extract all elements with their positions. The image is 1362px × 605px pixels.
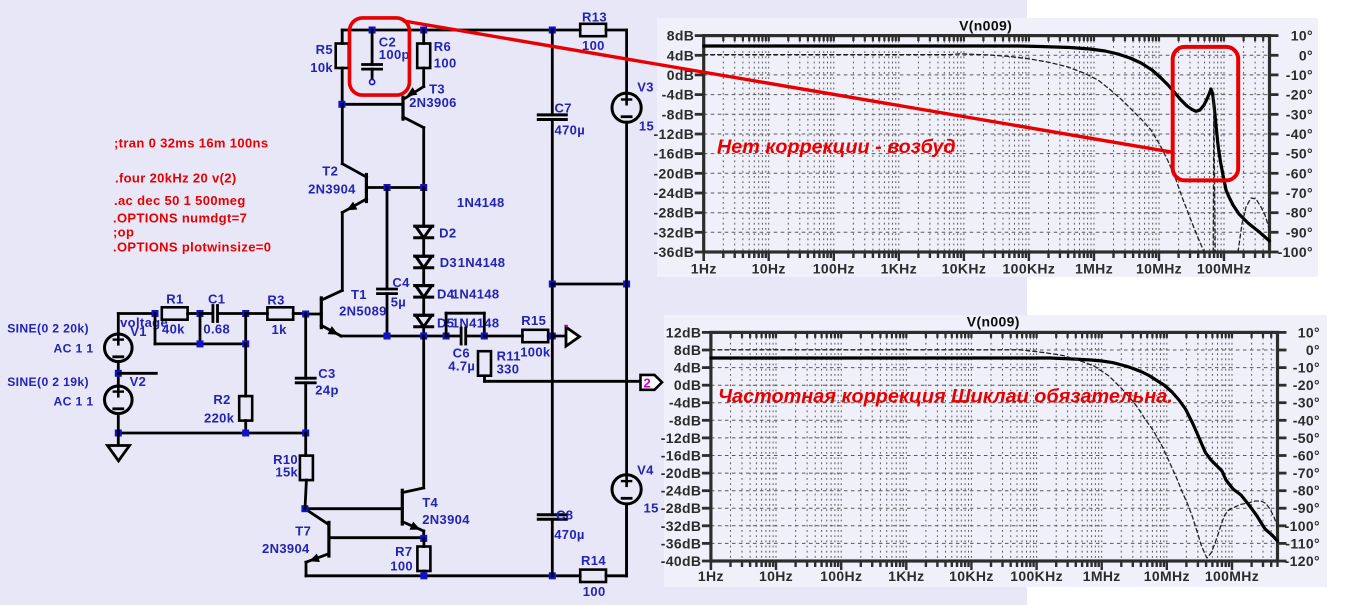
svg-text:100: 100 [583,584,606,599]
svg-text:330: 330 [497,362,520,377]
svg-text:-12dB: -12dB [661,430,702,446]
svg-text:V3: V3 [637,80,654,95]
svg-text:C7: C7 [555,101,572,116]
svg-text:T7: T7 [295,524,311,539]
svg-text:100p: 100p [379,47,410,62]
directive tran [114,135,268,150]
junction diode/T4 collector node [420,333,427,340]
junction C7 bottom / V rail link [549,281,556,288]
svg-text:0dB: 0dB [674,377,702,393]
label AC V1 [54,342,94,356]
svg-text:R14: R14 [581,553,606,568]
frequency axis labels [691,261,1251,277]
svg-text:-80°: -80° [1293,483,1320,499]
wire diode column [422,188,425,337]
grid vertical lines [731,332,1272,561]
svg-text:D2: D2 [439,226,456,241]
junction node A [152,310,159,317]
svg-text:-32dB: -32dB [654,224,695,240]
directive options numdgt [113,210,247,225]
axis tick marks [711,332,1278,570]
grid horizontal lines [704,55,1270,232]
svg-text:5µ: 5µ [391,295,406,310]
svg-text:10°: 10° [1291,28,1313,44]
svg-text:40k: 40k [162,322,185,337]
plot frame [711,332,1278,561]
svg-text:1Hz: 1Hz [691,261,717,277]
svg-text:1Hz: 1Hz [698,568,724,584]
directive plotwinsize [113,239,271,254]
junction C2 top [369,27,376,34]
svg-text:15: 15 [639,118,654,133]
svg-text:R5: R5 [316,42,333,57]
svg-text:-110°: -110° [1285,535,1320,551]
svg-text:Нет коррекции - возбуд: Нет коррекции - возбуд [717,136,956,158]
svg-text:AC 1 1: AC 1 1 [54,394,94,408]
annotation no compensation [717,136,956,158]
svg-text:100: 100 [434,56,457,71]
svg-text:-8dB: -8dB [669,412,702,428]
svg-text:470µ: 470µ [555,123,586,138]
svg-text:T4: T4 [422,495,438,510]
svg-text:100k: 100k [520,344,551,359]
junction C4 top [384,184,391,191]
resistor R7 [390,538,430,575]
svg-text:100: 100 [390,558,413,573]
svg-text:SINE(0 2 20k): SINE(0 2 20k) [7,321,89,335]
wire C7 column middle [551,284,554,336]
junction C4 bottom [384,333,391,340]
schematic window background [0,0,1027,605]
transistor T7 2N3904 [262,509,424,576]
svg-text:1k: 1k [272,322,288,337]
svg-text:SINE(0 2 19k): SINE(0 2 19k) [7,375,89,389]
wire top rail [342,29,580,32]
voltage source V3 [612,80,654,285]
svg-text:-4dB: -4dB [669,395,702,411]
transistor T1 2N5089 [306,287,387,336]
wire RC bypass [155,314,246,344]
svg-text:-16dB: -16dB [661,448,702,464]
svg-text:.ac dec 50 1 500meg: .ac dec 50 1 500meg [114,193,246,208]
resistor R15 [484,313,552,359]
svg-text:2N3906: 2N3906 [409,95,457,110]
svg-text:C1: C1 [208,292,225,307]
svg-text:1MHz: 1MHz [1083,568,1121,584]
junction C3 bottom / R10 top [302,430,309,437]
grid horizontal lines [711,350,1278,543]
transistor T3 2N3906 [342,81,457,187]
wire T4 collector [422,336,425,488]
svg-text:10MHz: 10MHz [1144,568,1190,584]
right phase axis labels [1278,324,1321,569]
svg-text:-30°: -30° [1286,106,1313,122]
svg-text:2N3904: 2N3904 [308,182,356,197]
junction R7 top / T4 emitter / T7 base [420,535,427,542]
label 1N4148 diode chain [457,195,505,210]
directive ac [114,193,246,208]
svg-text:8dB: 8dB [674,342,702,358]
svg-text:-24dB: -24dB [661,483,702,499]
svg-text:10KHz: 10KHz [949,568,994,584]
svg-text:-40°: -40° [1293,412,1320,428]
svg-text:1MHz: 1MHz [1075,261,1113,277]
resistor R1 [162,292,200,337]
directive four [115,170,237,185]
svg-text:-60°: -60° [1293,448,1320,464]
label SINE V2 [7,375,89,389]
svg-text:-100°: -100° [1285,518,1320,534]
resistor R11 [478,349,521,382]
svg-text:0°: 0° [1306,342,1320,358]
svg-text:-28dB: -28dB [661,500,702,516]
junction C7 top [549,27,556,34]
svg-text:220k: 220k [204,411,235,426]
svg-text:1N4148: 1N4148 [458,255,506,270]
ground symbol [108,446,130,461]
wire C6 bypass [446,313,484,336]
svg-text:100Hz: 100Hz [813,261,855,277]
svg-text:C3: C3 [318,366,335,381]
svg-text:-50°: -50° [1293,430,1320,446]
svg-text:100KHz: 100KHz [1003,261,1056,277]
right phase axis labels [1270,28,1314,260]
bottom Bode plot V(n009): with compensation [661,314,1320,585]
svg-text:1N4148: 1N4148 [452,315,500,330]
svg-text:4.7µ: 4.7µ [448,358,475,373]
svg-text:2: 2 [644,376,652,391]
wire bottom rail [306,574,580,577]
svg-text:-10°: -10° [1286,67,1313,83]
svg-text:15: 15 [644,500,659,515]
wire V2 node stub [118,372,156,375]
svg-text:-28dB: -28dB [654,205,695,221]
top plot magnitude curve (solid) [704,46,1270,241]
svg-text:10Hz: 10Hz [759,568,793,584]
bottom plot magnitude curve (solid) [711,358,1278,541]
svg-text:-10°: -10° [1293,360,1320,376]
wire ground rail [118,432,305,435]
wire to port 2 [485,380,645,383]
junction bypass B [197,340,204,347]
bottom plot phase curve (dashed) [711,350,1278,558]
wire emitter rail [341,335,446,338]
svg-text:8dB: 8dB [667,28,695,44]
svg-text:-50°: -50° [1286,146,1313,162]
svg-text:100MHz: 100MHz [1197,261,1251,277]
svg-text:.four 20kHz 20 v(2): .four 20kHz 20 v(2) [115,170,237,185]
svg-text:R3: R3 [267,293,284,308]
svg-text:V4: V4 [637,462,654,477]
capacitor C8 [538,336,584,576]
wire V1 top to node A [118,312,155,315]
junction node C [242,310,249,317]
red callout line [404,21,1173,152]
svg-text:470µ: 470µ [554,527,585,542]
bottom plot panel background [664,315,1327,587]
svg-text:Частотная коррекция Шиклаи обя: Частотная коррекция Шиклаи обязательна. [718,386,1173,408]
junction T1 base / C3 top [302,311,309,318]
resistor R13 [580,10,626,94]
svg-text:R1: R1 [166,292,183,307]
capacitor C6 [446,328,484,373]
diode D4 1N4148 [415,286,500,302]
svg-text:.OPTIONS plotwinsize=0: .OPTIONS plotwinsize=0 [113,239,271,254]
svg-text:4dB: 4dB [674,360,702,376]
svg-text:D3: D3 [440,255,457,270]
svg-text:-40°: -40° [1286,126,1313,142]
left dB axis labels [661,324,711,569]
svg-text:C4: C4 [392,275,410,290]
svg-text:R7: R7 [395,544,412,559]
capacitor C7 [538,30,585,284]
voltage source V4 [612,284,659,576]
svg-text:-80°: -80° [1286,205,1313,221]
svg-text:-36dB: -36dB [654,244,695,260]
svg-text:;op: ;op [113,224,134,239]
svg-text:V1: V1 [130,324,147,339]
svg-text:-16dB: -16dB [654,146,695,162]
directive op [113,224,134,239]
svg-text:;tran 0 32ms 16m 100ns: ;tran 0 32ms 16m 100ns [114,135,268,150]
svg-text:1N4148: 1N4148 [452,286,500,301]
svg-text:-70°: -70° [1286,185,1313,201]
svg-text:24p: 24p [315,382,338,397]
frequency axis labels [698,568,1259,584]
voltage source V1 [105,314,169,362]
resistor R6 [417,30,456,87]
junction R2 bottom [242,430,249,437]
svg-text:10°: 10° [1298,324,1320,340]
transistor T2 2N3904 [308,104,366,290]
wire T2 base to diode column [366,186,423,189]
svg-text:15k: 15k [275,465,298,480]
svg-text:-120°: -120° [1285,553,1320,569]
red highlight box in top plot [1173,47,1239,181]
svg-text:-32dB: -32dB [661,518,702,534]
svg-text:100Hz: 100Hz [820,568,862,584]
capacitor C2 [363,30,410,85]
svg-text:T1: T1 [351,287,367,302]
svg-text:-36dB: -36dB [661,535,702,551]
svg-text:-90°: -90° [1286,224,1313,240]
svg-text:-12dB: -12dB [654,126,695,142]
svg-text:-20dB: -20dB [654,165,695,181]
plot frame [704,36,1270,252]
svg-text:0°: 0° [1299,47,1313,63]
svg-text:-60°: -60° [1286,165,1313,181]
svg-text:1KHz: 1KHz [888,568,924,584]
transistor T4 2N3904 [305,488,470,539]
resistor R3 [246,293,306,337]
resistor R14 [580,504,626,599]
svg-text:4dB: 4dB [667,47,695,63]
svg-text:2N5089: 2N5089 [339,304,387,319]
junction R6 top [420,27,427,34]
svg-text:100MHz: 100MHz [1205,568,1259,584]
diode D2 1N4148 [415,226,457,241]
junction V1-/V2+ node [115,370,122,377]
label SINE V1 [7,321,89,335]
junction R7 bottom [420,572,427,579]
junction V2 bottom / ground [115,430,122,437]
junction C6 left [443,333,450,340]
svg-text:V(n009): V(n009) [959,18,1012,34]
svg-text:T2: T2 [322,163,338,178]
port 2 output flag [641,375,663,391]
capacitor C3 [296,314,339,433]
svg-text:10k: 10k [310,60,333,75]
svg-text:2N3904: 2N3904 [262,541,310,556]
resistor R2 [204,344,252,433]
svg-text:0.68: 0.68 [203,322,230,337]
svg-text:-24dB: -24dB [654,185,695,201]
svg-text:-30°: -30° [1293,395,1320,411]
voltage source V2 [105,362,147,414]
junction R5/T2 collector node [338,101,345,108]
svg-text:10MHz: 10MHz [1136,261,1182,277]
svg-text:1N4148: 1N4148 [457,195,505,210]
junction bypass C / R2 top [242,340,249,347]
wire link C7-V3 columns [552,283,626,286]
left dB axis labels [654,28,704,260]
output probe arrow [552,325,579,346]
svg-text:R2: R2 [213,392,230,407]
top plot panel background [657,18,1318,277]
svg-text:C8: C8 [556,508,573,523]
junction C6 right / R11 top [481,333,488,340]
junction V3/V4 column link [623,281,630,288]
svg-text:R13: R13 [582,10,607,25]
svg-text:-20°: -20° [1286,87,1313,103]
label AC V2 [54,394,94,408]
junction node B [197,310,204,317]
capacitor C4 [378,188,411,337]
svg-text:2N3904: 2N3904 [422,512,470,527]
svg-text:12dB: 12dB [666,324,702,340]
svg-text:R15: R15 [521,313,546,328]
junction diode chain top [420,184,427,191]
svg-text:-40dB: -40dB [661,553,702,569]
svg-text:1KHz: 1KHz [881,261,917,277]
top plot phase curve (dashed) [704,54,1270,252]
capacitor C1 [200,292,246,337]
resistor R10 [273,433,313,509]
svg-text:-70°: -70° [1293,465,1320,481]
diode D5 1N4148 [415,315,500,330]
svg-text:10Hz: 10Hz [752,261,786,277]
svg-text:-4dB: -4dB [662,87,695,103]
svg-text:AC 1 1: AC 1 1 [54,342,94,356]
annotation correction required [718,386,1173,408]
svg-text:100KHz: 100KHz [1010,568,1063,584]
svg-text:-90°: -90° [1293,500,1320,516]
svg-text:R6: R6 [434,39,451,54]
svg-text:-20°: -20° [1293,377,1320,393]
grid vertical lines [723,36,1263,252]
junction R15 right on C7/C8 column [549,333,556,340]
svg-text:V(n009): V(n009) [967,314,1020,330]
wire V2 to ground [117,414,120,446]
resistor R5 [310,30,348,104]
top Bode plot V(n009): no compensation [654,18,1313,277]
svg-text:V2: V2 [130,374,147,389]
svg-text:-8dB: -8dB [662,106,695,122]
axis tick marks [704,36,1270,261]
junction C8 bottom [549,572,556,579]
svg-text:10KHz: 10KHz [942,261,987,277]
junction T4 base / T7 collector / R10 bottom [301,505,308,512]
red highlight box around C2 [350,18,410,95]
svg-text:-100°: -100° [1278,244,1313,260]
diode D3 1N4148 [415,255,506,270]
svg-text:.OPTIONS numdgt=7: .OPTIONS numdgt=7 [113,210,247,225]
svg-text:-20dB: -20dB [661,465,702,481]
